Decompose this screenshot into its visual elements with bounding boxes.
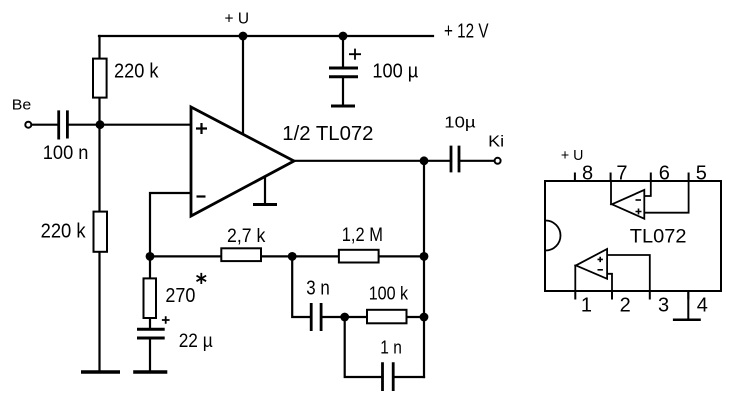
svg-text:100 n: 100 n [43, 143, 89, 164]
svg-text:+ U: + U [561, 147, 584, 164]
svg-text:22 µ: 22 µ [179, 331, 213, 352]
svg-text:1,2 M: 1,2 M [342, 225, 383, 246]
svg-text:4: 4 [697, 295, 708, 317]
svg-text:3 n: 3 n [306, 278, 330, 300]
svg-text:1: 1 [581, 295, 592, 317]
svg-text:2,7 k: 2,7 k [227, 226, 266, 247]
svg-text:100 µ: 100 µ [372, 61, 418, 83]
svg-text:+ U: + U [225, 11, 250, 28]
svg-text:220 k: 220 k [114, 61, 159, 83]
svg-text:Ki: Ki [488, 134, 504, 151]
svg-text:Be: Be [12, 96, 32, 113]
svg-text:TL072: TL072 [630, 227, 687, 248]
svg-text:8: 8 [582, 163, 593, 185]
svg-text:7: 7 [616, 163, 627, 185]
svg-text:3: 3 [658, 295, 669, 317]
svg-text:10µ: 10µ [444, 115, 475, 132]
svg-text:2: 2 [620, 295, 631, 317]
svg-text:100 k: 100 k [369, 284, 409, 304]
svg-text:+ 12 V: + 12 V [444, 21, 489, 43]
svg-text:270: 270 [165, 285, 195, 307]
svg-text:1/2 TL072: 1/2 TL072 [282, 123, 373, 145]
svg-text:220 k: 220 k [41, 221, 87, 243]
svg-text:1 n: 1 n [380, 337, 402, 357]
svg-text:5: 5 [696, 163, 707, 185]
svg-text:6: 6 [659, 163, 670, 185]
